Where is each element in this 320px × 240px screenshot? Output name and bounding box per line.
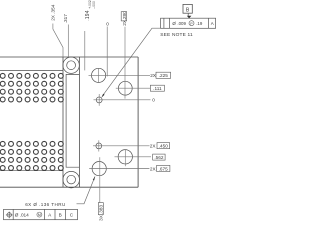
svg-text:.111: .111 bbox=[153, 86, 162, 91]
svg-text:.317: .317 bbox=[63, 14, 68, 24]
datum B stem bbox=[187, 13, 189, 16]
inner wall left vertical bbox=[62, 57, 64, 187]
svg-text:SEE NOTE 11: SEE NOTE 11 bbox=[160, 32, 193, 38]
hole E circle bbox=[118, 150, 132, 164]
ordinate dim line y .450 bbox=[93, 145, 150, 147]
part outline top edge bbox=[0, 56, 138, 58]
ordinate dim line y 0 bbox=[94, 99, 151, 101]
ordinate line x .194 bbox=[84, 31, 86, 70]
datum B filled triangle bbox=[187, 16, 192, 19]
ordinate dim line y .562 bbox=[115, 156, 152, 158]
leader arrowhead at hole C bbox=[101, 94, 104, 98]
inner wall right vertical bbox=[78, 57, 80, 187]
svg-text:6X Ø .136 THRU: 6X Ø .136 THRU bbox=[25, 202, 66, 207]
datum B flag box bbox=[183, 4, 192, 13]
rotated boxed label 2X .280 bbox=[121, 12, 127, 21]
leader arrowhead at hole F bbox=[93, 176, 95, 180]
ordinate line x 0 bbox=[106, 27, 108, 77]
key slot rectangle bbox=[66, 74, 79, 167]
feature control frame top right bbox=[161, 18, 216, 28]
svg-text:.225: .225 bbox=[159, 73, 169, 78]
circled M modifier bbox=[37, 212, 42, 217]
hole D vertical centerline bbox=[98, 140, 100, 151]
ordinate dim line y .675 bbox=[89, 168, 149, 170]
pin grid of contact rings bbox=[0, 73, 63, 170]
boss bottom outer circle bbox=[63, 171, 80, 188]
projected tolerance circled P symbol bbox=[189, 21, 194, 26]
part outline right edge bbox=[137, 57, 139, 187]
right label .562 bbox=[153, 154, 165, 160]
svg-text:.450: .450 bbox=[159, 144, 169, 149]
svg-text:3X: 3X bbox=[99, 214, 104, 221]
cavity bottom edge bbox=[0, 170, 63, 172]
boss top inner circle bbox=[67, 61, 76, 70]
svg-text:B: B bbox=[59, 213, 62, 218]
svg-text:B: B bbox=[186, 8, 190, 14]
cavity top edge bbox=[0, 69, 63, 71]
hole B vertical centerline merged with 2X .280 ordinate line bbox=[124, 27, 126, 99]
ordinate dim line y .225 bbox=[89, 74, 151, 76]
svg-text:.009: .009 bbox=[177, 21, 186, 26]
hole A circle bbox=[92, 68, 106, 82]
svg-text:2X .354: 2X .354 bbox=[51, 4, 56, 21]
ordinate dim line y .111 bbox=[116, 87, 151, 89]
bottom rotated boxed label 3X .383 bbox=[98, 203, 103, 215]
svg-text:0: 0 bbox=[152, 98, 155, 103]
svg-text:Ø: Ø bbox=[172, 21, 176, 26]
leader 6X hole callout bbox=[77, 177, 96, 204]
hole F circle bbox=[92, 162, 106, 176]
svg-text:-.000: -.000 bbox=[92, 1, 96, 9]
svg-text:2X: 2X bbox=[150, 167, 157, 172]
ordinate line x .317 bbox=[67, 25, 69, 58]
leader from FCF B to hole C bbox=[103, 28, 161, 96]
hole C circle bbox=[96, 97, 102, 103]
svg-text:.562: .562 bbox=[154, 155, 164, 160]
boss top outer circle bbox=[63, 57, 79, 73]
svg-text:0: 0 bbox=[106, 22, 109, 27]
hole B circle bbox=[118, 81, 132, 95]
svg-text:Ø .014: Ø .014 bbox=[15, 213, 29, 218]
leader 2X .354 bbox=[53, 24, 63, 58]
svg-text:.383: .383 bbox=[99, 204, 104, 214]
svg-text:.280: .280 bbox=[122, 11, 127, 21]
svg-text:A: A bbox=[211, 21, 214, 26]
svg-text:.675: .675 bbox=[159, 167, 169, 172]
hole E vertical centerline bbox=[124, 149, 126, 166]
svg-text:C: C bbox=[70, 213, 74, 218]
part outline bottom edge bbox=[0, 186, 138, 188]
boss bottom inner circle bbox=[67, 175, 76, 184]
hole C vertical centerline bbox=[98, 94, 100, 106]
right label .111 bbox=[150, 85, 164, 91]
hole F vertical centerline merged with 3X .383 ordinate line bbox=[99, 157, 101, 202]
svg-text:.19: .19 bbox=[196, 21, 203, 26]
position symbol bbox=[6, 212, 13, 219]
svg-text:.194: .194 bbox=[85, 10, 91, 21]
svg-text:2X: 2X bbox=[150, 143, 157, 148]
hole D circle bbox=[96, 143, 102, 149]
svg-text:2X: 2X bbox=[122, 19, 127, 26]
hole A vertical centerline bbox=[98, 68, 100, 83]
bottom feature control frame bbox=[4, 209, 78, 219]
svg-text:M: M bbox=[38, 213, 41, 217]
